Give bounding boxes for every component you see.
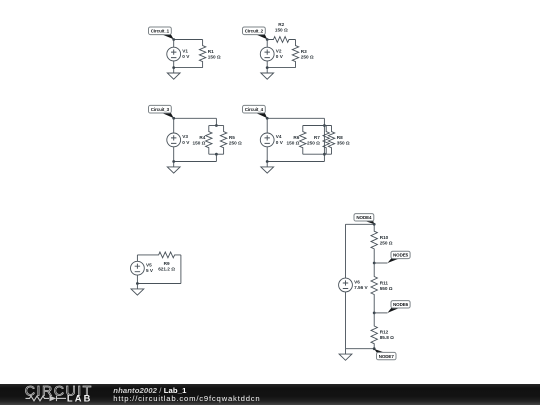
resistor R3 xyxy=(292,40,298,68)
resistor R9 xyxy=(137,252,181,258)
svg-text:http://circuitlab.com/c9fcqwak: http://circuitlab.com/c9fcqwaktddcn xyxy=(113,394,260,403)
junction circuit4 bottom node xyxy=(266,160,269,163)
wire V5 top lead xyxy=(136,255,138,261)
junction NODE6 xyxy=(373,312,376,315)
ground xyxy=(167,68,180,80)
resistor R10 xyxy=(371,224,377,263)
junction circuit3 bottom node xyxy=(172,160,175,163)
resistor R8 xyxy=(328,126,334,155)
junction circuit1 bottom node xyxy=(172,66,175,69)
wire V2 top lead xyxy=(266,40,268,48)
ground xyxy=(167,162,180,174)
junction circuit1 top node xyxy=(172,38,175,41)
node flag Circuit_4 xyxy=(243,105,268,118)
wire V2 bottom lead xyxy=(266,61,268,68)
wire circuit3 bottom xyxy=(174,161,217,163)
junction NODE7 xyxy=(373,347,376,350)
voltage source V6 xyxy=(339,278,353,292)
wire V3 bottom lead xyxy=(173,147,175,162)
svg-text:LAB: LAB xyxy=(67,393,93,403)
wire circuit4 top bar xyxy=(303,125,332,127)
wire circuit6 bottom xyxy=(346,348,375,350)
node flag NODE7 xyxy=(374,349,396,360)
node flag Circuit_1 xyxy=(149,27,174,39)
wire NODE6 stub xyxy=(374,312,387,314)
voltage source V2 xyxy=(260,47,274,61)
wire circuit6 top xyxy=(346,223,375,225)
ground xyxy=(339,349,352,361)
wire circuit4 feed xyxy=(323,118,325,161)
junction circuit4 top node xyxy=(266,117,269,120)
resistor R4 xyxy=(206,126,212,155)
wire circuit2 bottom xyxy=(267,67,295,69)
wire V1 top lead xyxy=(173,40,175,48)
wire V3 top lead xyxy=(173,118,175,133)
wire circuit4 bottom xyxy=(267,161,324,163)
junction circuit3 parallel bottom xyxy=(215,153,218,156)
wire circuit3 top bar xyxy=(209,125,224,127)
voltage source V1 xyxy=(167,47,181,61)
wire circuit3 bottom bar xyxy=(209,153,224,155)
ground xyxy=(261,162,274,174)
node flag NODE4 xyxy=(354,214,374,225)
wire V1 bottom lead xyxy=(173,61,175,68)
wire V5 bottom lead xyxy=(136,275,138,283)
resistor R12 xyxy=(371,313,377,349)
CircuitLab logo resistor+diode glyph xyxy=(26,396,67,401)
ground xyxy=(261,68,274,80)
voltage source V4 xyxy=(260,133,274,147)
junction circuit3 top node xyxy=(172,117,175,120)
footer bar xyxy=(0,384,540,405)
node flag Circuit_3 xyxy=(149,105,174,118)
resistor R2 xyxy=(267,37,295,43)
wire V4 bottom lead xyxy=(266,147,268,162)
ground xyxy=(131,284,144,296)
resistor R6 xyxy=(300,126,306,155)
wire V6 bottom lead xyxy=(345,292,347,349)
wire V4 top lead xyxy=(266,118,268,133)
wire circuit5 bottom xyxy=(137,283,181,285)
junction circuit2 bottom node xyxy=(266,66,269,69)
wire circuit1 bottom xyxy=(174,67,203,69)
junction circuit4 parallel top xyxy=(323,124,326,127)
wire circuit4 bottom bar xyxy=(303,153,332,155)
wire NODE5 stub xyxy=(374,262,387,264)
wire circuit3 bottom stub xyxy=(215,154,217,161)
wire circuit4 top xyxy=(267,117,324,119)
junction circuit3 parallel top xyxy=(215,124,218,127)
wire circuit3 top xyxy=(174,117,217,119)
junction circuit5 bottom node xyxy=(136,282,139,285)
node flag NODE5 xyxy=(388,251,411,263)
junction NODE4 xyxy=(373,223,376,226)
node flag Circuit_2 xyxy=(243,27,268,39)
voltage source V5 xyxy=(131,261,145,275)
junction NODE5 xyxy=(373,262,376,265)
resistor R11 xyxy=(371,263,377,313)
junction circuit4 parallel bottom xyxy=(323,153,326,156)
wire circuit3 top stub xyxy=(215,118,217,125)
wire circuit5 right xyxy=(180,255,182,284)
junction circuit2 top node xyxy=(266,38,269,41)
resistor R5 xyxy=(220,126,226,155)
wire circuit1 top xyxy=(174,39,203,41)
resistor R7 xyxy=(323,126,329,155)
node flag NODE6 xyxy=(388,301,411,313)
voltage source V3 xyxy=(167,133,181,147)
resistor R1 xyxy=(199,40,205,68)
wire V6 top lead xyxy=(345,224,347,278)
